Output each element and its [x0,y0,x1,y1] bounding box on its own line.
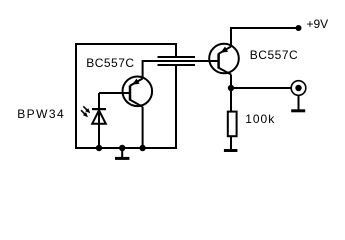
wire: resistor R1 to ground [230,136,232,149]
ground symbol G3 [291,109,305,112]
label BC557C (T2) [250,48,298,62]
wire: photodiode cathode to T1 base [99,92,130,94]
wire: output node to output terminal [231,87,292,89]
ground symbol G2 [224,149,238,152]
output terminal connector [291,81,306,96]
transistor T2 BC557C [209,44,239,75]
wire: T1 collector to ground rail [142,107,144,148]
wire: T2 emitter to +9V rail [231,28,299,47]
wire: output node down to resistor R1 [230,88,232,112]
label 100k [245,112,275,126]
light arrow 1 [83,106,90,113]
node: ground stub junction [119,145,125,151]
wire: photodiode vertical lead [98,93,100,148]
photodiode D1 cathode bar [92,108,106,110]
wire: ground stub [121,148,123,157]
node: photodiode anode junction [96,145,102,151]
wire: T1 emitter via cable centre conductor to T2 base [143,61,219,79]
resistor R1 100k [228,112,237,137]
label BPW34 [17,107,65,121]
transistor T1 BC557C [123,77,153,107]
light arrow 2 [81,110,88,117]
wire: T2 collector down to output node [230,75,232,89]
wire: output terminal shell to ground [298,95,300,109]
node: +9V supply terminal [296,25,302,31]
node: collector output junction [228,85,234,91]
photodiode D1 BPW34 triangle [92,110,106,124]
wire: screened cable top shield plate [158,56,196,58]
wire: screened cable bottom shield plate [158,64,196,66]
label +9V [307,17,329,31]
node: T1 collector junction [139,145,145,151]
ground symbol G1 [115,157,129,160]
label BC557C (T1) [86,56,134,70]
shield box enclosure [76,44,176,148]
